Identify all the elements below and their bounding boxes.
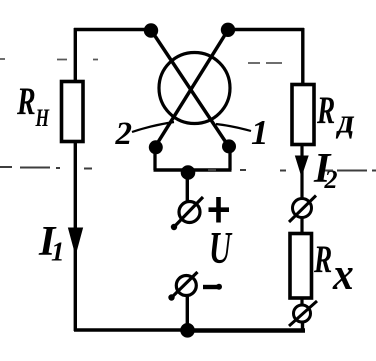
wire right vertical mid (Rd to terminal)	[300, 144, 303, 199]
wire top-left horizontal	[74, 28, 151, 31]
svg-text:H: H	[35, 104, 50, 132]
wire switch contact stub right	[228, 146, 231, 170]
node contact 2 (bottom-left)	[149, 140, 163, 154]
artifact dash-dot line top	[0, 59, 282, 63]
resistor RH	[62, 82, 84, 142]
node contact 1 (bottom-right)	[222, 139, 236, 153]
svg-text:U: U	[209, 224, 233, 273]
terminal +	[171, 197, 203, 230]
artifact dash-dot line middle	[0, 167, 376, 171]
wire left vertical upper	[74, 28, 77, 82]
svg-text:R: R	[316, 89, 335, 132]
wire switch bottom bar	[154, 168, 232, 171]
node bottom junction	[180, 323, 195, 338]
svg-text:2: 2	[115, 116, 133, 152]
wire switch blade 1 (top-left to bottom-right)	[151, 30, 229, 147]
arrow I1	[69, 228, 83, 254]
minus sign	[203, 285, 218, 289]
arrow I2	[296, 156, 309, 176]
wire center vertical to + terminal	[186, 170, 189, 201]
terminal between Rd and Rx	[289, 196, 316, 223]
wire bottom horizontal	[74, 328, 188, 332]
svg-text:1: 1	[51, 237, 65, 267]
wire center vertical below - terminal	[186, 295, 189, 331]
svg-text:R: R	[313, 238, 332, 281]
wire right vertical bottom stub	[301, 322, 304, 331]
wire right vertical upper	[301, 28, 304, 85]
galvanometer circle	[159, 53, 230, 124]
plus sign	[209, 197, 230, 223]
pointer line from 2	[132, 122, 174, 132]
wire bottom horizontal right	[188, 328, 305, 333]
pointer line from 1	[216, 124, 251, 131]
terminal below Rx	[289, 301, 317, 326]
svg-text:2: 2	[324, 165, 338, 194]
wire right vertical (terminal to Rx)	[300, 217, 303, 234]
node top-right junction	[221, 23, 235, 37]
node top-left junction	[144, 23, 158, 37]
svg-text:x: x	[332, 249, 354, 299]
svg-text:1: 1	[251, 113, 269, 152]
node bar center junction	[181, 165, 196, 180]
terminal -	[168, 272, 197, 301]
wire switch contact stub left	[153, 147, 156, 170]
resistor Rx	[290, 234, 312, 299]
svg-text:R: R	[16, 81, 36, 123]
wire left vertical lower	[74, 141, 77, 331]
wire switch blade 2 (top-right to bottom-left)	[155, 30, 228, 147]
resistor Rd	[292, 85, 314, 145]
wire right vertical (Rx to bottom terminal)	[300, 298, 303, 306]
wire top-right horizontal	[228, 28, 304, 31]
